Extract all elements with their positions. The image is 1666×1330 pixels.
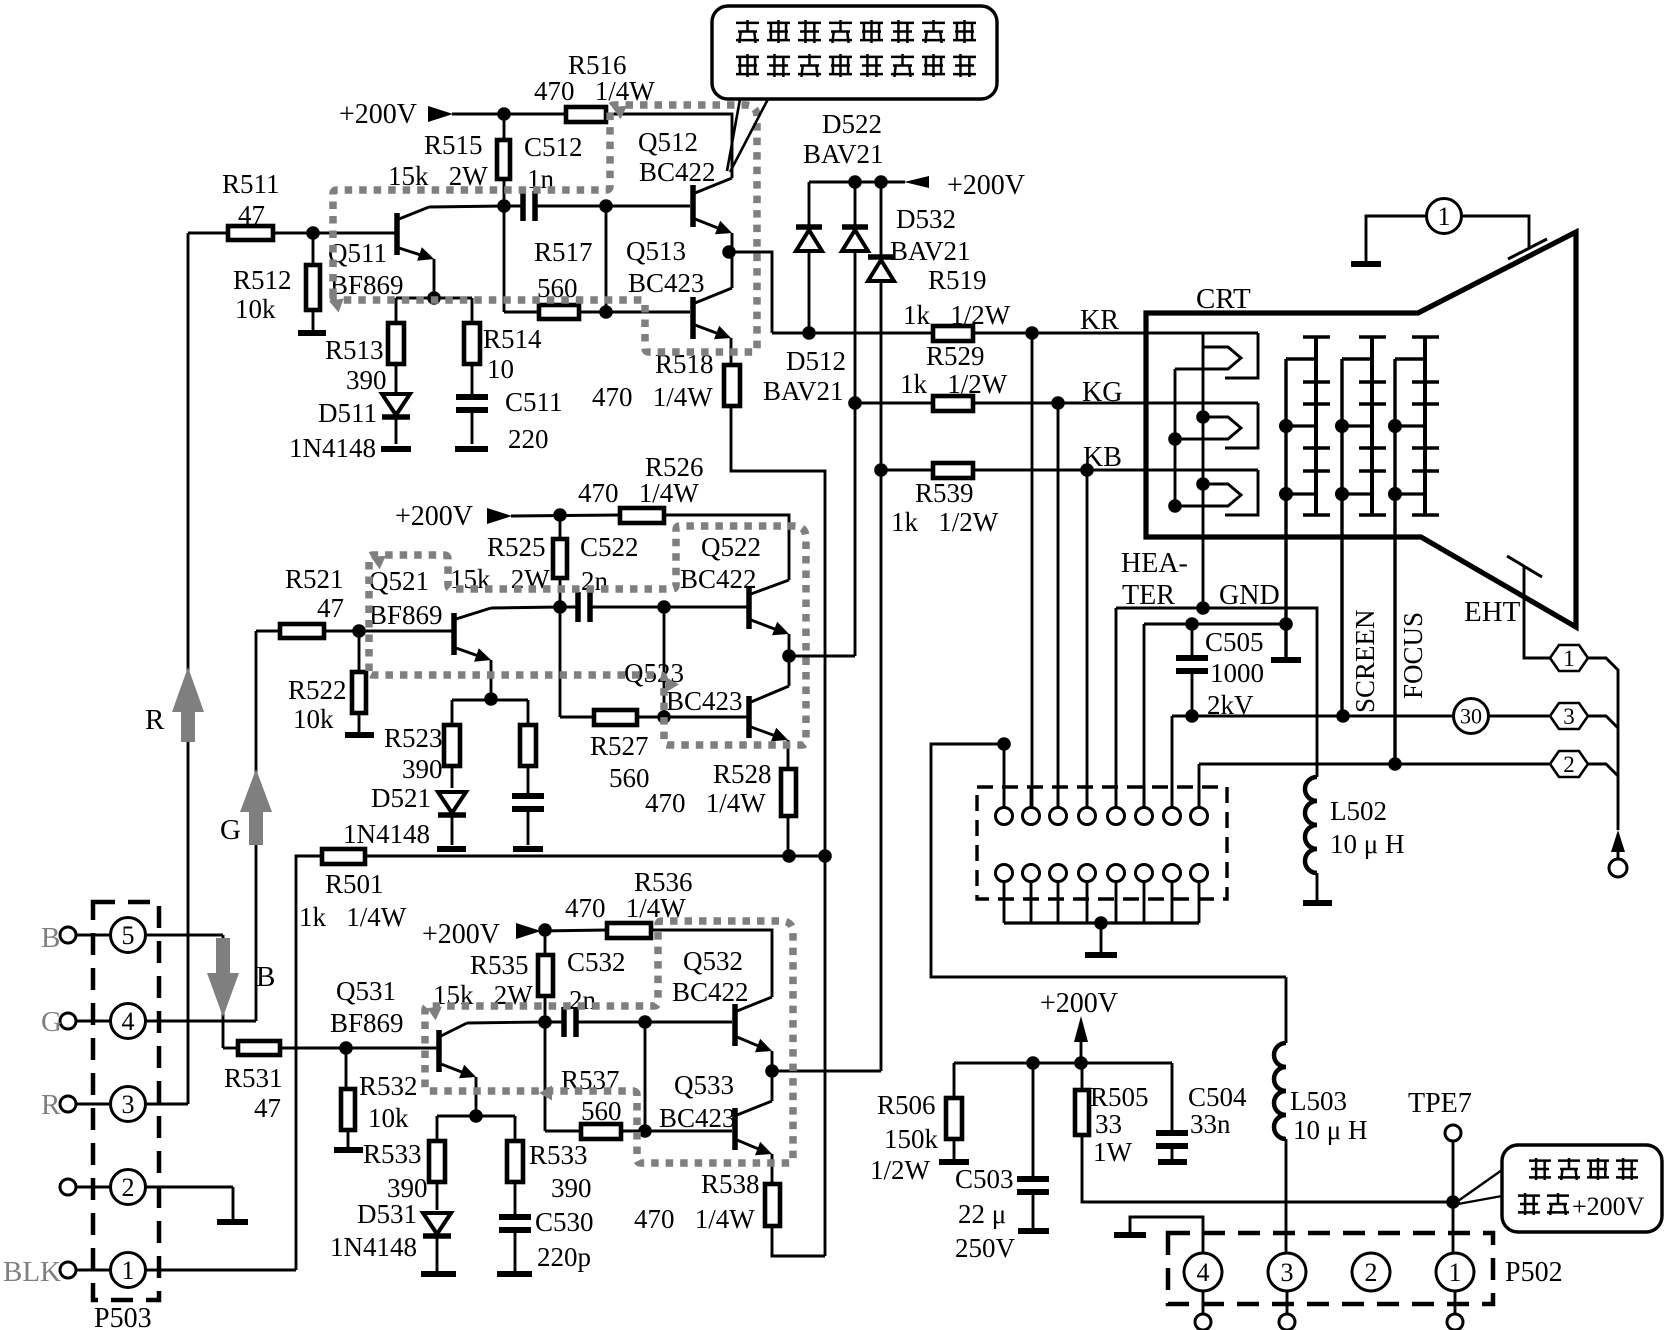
ground C503 xyxy=(1018,1228,1049,1234)
P503 pin 4 xyxy=(60,1013,76,1029)
socket pin 3 top xyxy=(1050,808,1067,825)
svg-text:EHT: EHT xyxy=(1464,596,1521,628)
svg-text:FOCUS: FOCUS xyxy=(1398,612,1428,699)
svg-text:HEA-: HEA- xyxy=(1121,548,1188,579)
svg-text:+200V: +200V xyxy=(1040,988,1118,1019)
svg-text:C503: C503 xyxy=(955,1164,1014,1194)
ground R522 xyxy=(345,732,374,738)
EHT tick xyxy=(1507,556,1542,577)
wire node to R527 left xyxy=(559,607,562,717)
wire Q521 collector to C522 xyxy=(491,607,560,608)
wire KG to G-output xyxy=(854,403,857,656)
svg-text:150k: 150k xyxy=(884,1124,939,1154)
EHT cable terminal xyxy=(1611,830,1625,852)
svg-text:1: 1 xyxy=(1449,1258,1462,1287)
ground socket xyxy=(1100,923,1103,953)
diode D531 xyxy=(423,1213,451,1234)
svg-text:Q512: Q512 xyxy=(638,127,698,157)
socket pin 3 bottom xyxy=(1050,865,1067,882)
socket pin 2 bottom xyxy=(1023,865,1040,882)
wire node to R517 left xyxy=(503,206,506,312)
wire Q532 emitter to Q533 collector xyxy=(771,1051,774,1101)
node B output xyxy=(765,1064,779,1078)
svg-text:KR: KR xyxy=(1080,305,1119,336)
svg-text:BF869: BF869 xyxy=(330,270,404,300)
svg-text:R: R xyxy=(145,704,165,736)
resistor R505 xyxy=(1081,1063,1084,1090)
resistor R501 xyxy=(296,856,322,1270)
svg-text:BC422: BC422 xyxy=(672,977,749,1007)
connector CRT socket xyxy=(977,787,1227,899)
svg-text:C512: C512 xyxy=(524,132,583,162)
socket pin 8 top xyxy=(1191,808,1208,825)
svg-text:BC423: BC423 xyxy=(659,1103,736,1133)
svg-text:Q521: Q521 xyxy=(369,566,429,596)
P503 pin 3 xyxy=(60,1096,76,1112)
svg-text:220: 220 xyxy=(508,424,549,454)
wire KB line xyxy=(874,463,888,477)
wire Q521 emitter xyxy=(490,660,493,699)
arrow B (gray) xyxy=(216,938,230,973)
svg-text:D521: D521 xyxy=(371,783,431,813)
svg-text:G: G xyxy=(220,814,241,846)
terminal tag 2 xyxy=(1550,751,1588,777)
resistor R527 xyxy=(560,716,594,719)
CRT cathode KR xyxy=(1146,332,1258,335)
svg-text:10: 10 xyxy=(487,354,514,384)
wire C532 to Q532 base xyxy=(645,1021,732,1024)
svg-text:R501: R501 xyxy=(325,869,384,899)
resistor R528 xyxy=(787,740,790,769)
node Q521 base xyxy=(352,624,366,638)
CRT heater wire A xyxy=(1202,333,1205,608)
capacitor C503 xyxy=(1032,1063,1035,1176)
svg-text:+200V: +200V xyxy=(422,919,500,950)
svg-text:R522: R522 xyxy=(288,675,347,705)
svg-text:R532: R532 xyxy=(359,1071,418,1101)
wire R output to KR xyxy=(729,252,772,333)
svg-text:560: 560 xyxy=(609,763,650,793)
wire Q522 emitter to Q523 collector xyxy=(788,634,791,686)
svg-text:D511: D511 xyxy=(318,398,377,428)
socket pin 1 bottom xyxy=(996,865,1013,882)
diode D521 xyxy=(438,792,466,813)
wire KG line xyxy=(848,396,862,410)
svg-text:R515: R515 xyxy=(424,130,483,160)
ground R512 xyxy=(298,330,326,336)
svg-text:390: 390 xyxy=(402,754,443,784)
socket pin 4 bottom xyxy=(1079,865,1096,882)
svg-text:SCREEN: SCREEN xyxy=(1350,609,1380,713)
wire node to R537 left xyxy=(544,1022,547,1131)
P503 pin 5 xyxy=(60,927,76,943)
CRT envelope xyxy=(1146,232,1576,627)
resistor R513 xyxy=(395,298,398,323)
resistor R516 xyxy=(566,107,606,122)
svg-text:GND: GND xyxy=(1219,580,1280,611)
svg-text:R525: R525 xyxy=(487,532,546,562)
svg-text:TER: TER xyxy=(1122,580,1175,611)
resistor R524 xyxy=(527,700,530,725)
wire KB to socket pin4 xyxy=(1086,470,1089,808)
svg-text:R519: R519 xyxy=(928,265,987,295)
svg-text:R533: R533 xyxy=(529,1140,588,1170)
svg-text:47: 47 xyxy=(317,593,344,623)
ground D511 xyxy=(381,446,411,452)
svg-text:B: B xyxy=(41,922,60,954)
wire R536 to Q532 collector xyxy=(651,930,772,997)
wire KR line xyxy=(772,332,933,335)
socket pin 6 top xyxy=(1136,808,1153,825)
svg-text:R514: R514 xyxy=(483,324,542,354)
wire EHT xyxy=(1524,567,1550,658)
dotted-box arrow tips B xyxy=(427,1007,442,1021)
svg-text:D531: D531 xyxy=(357,1199,417,1229)
svg-text:30: 30 xyxy=(1460,703,1482,728)
svg-text:C505: C505 xyxy=(1205,627,1264,657)
svg-text:BC422: BC422 xyxy=(639,157,716,187)
resistor R526 xyxy=(620,508,664,523)
wire KR to socket pin2 xyxy=(1031,333,1034,808)
svg-text:R531: R531 xyxy=(224,1063,283,1093)
wire Q531 emitter xyxy=(475,1077,478,1116)
svg-text:R512: R512 xyxy=(233,265,292,295)
CRT electrode G1 xyxy=(1284,359,1287,658)
wire Q511 emitter xyxy=(433,259,436,298)
svg-text:3: 3 xyxy=(1281,1258,1294,1287)
resistor R532 xyxy=(345,1048,348,1089)
transistor Q532 xyxy=(732,1004,738,1046)
wire R538 return xyxy=(772,1226,825,1256)
resistor R535 xyxy=(544,930,547,955)
wire Q511 collector to C512 xyxy=(429,206,504,207)
svg-text:470 1/4W: 470 1/4W xyxy=(578,478,699,508)
wire KR to CRT xyxy=(973,332,1146,335)
svg-text:5: 5 xyxy=(122,921,135,950)
wire G output xyxy=(789,655,855,658)
socket pin 5 top xyxy=(1108,808,1125,825)
svg-text:22 μ: 22 μ xyxy=(958,1199,1006,1229)
svg-text:560: 560 xyxy=(581,1096,622,1126)
wire KG to socket pin3 xyxy=(1057,403,1060,808)
ground G1 electrode xyxy=(1271,657,1301,663)
callout balloon: output stage supply +200V xyxy=(1502,1145,1662,1232)
capacitor C522 xyxy=(560,606,578,609)
svg-text:2: 2 xyxy=(1563,752,1575,777)
svg-text:2n: 2n xyxy=(569,985,597,1015)
svg-text:D512: D512 xyxy=(786,346,846,376)
svg-text:C504: C504 xyxy=(1188,1082,1247,1112)
svg-text:Q531: Q531 xyxy=(336,976,396,1006)
svg-text:390: 390 xyxy=(346,365,387,395)
svg-text:C522: C522 xyxy=(580,532,639,562)
svg-text:470 1/4W: 470 1/4W xyxy=(565,893,686,923)
svg-text:KB: KB xyxy=(1083,442,1122,473)
resistor R534 xyxy=(514,1116,517,1141)
svg-text:L503: L503 xyxy=(1290,1086,1347,1116)
svg-text:BF869: BF869 xyxy=(330,1008,404,1038)
svg-text:R506: R506 xyxy=(877,1090,936,1120)
svg-text:BC423: BC423 xyxy=(628,268,705,298)
svg-text:10k: 10k xyxy=(368,1103,409,1133)
socket pin 8 bottom xyxy=(1191,865,1208,882)
svg-text:1W: 1W xyxy=(1093,1137,1133,1167)
svg-text:47: 47 xyxy=(254,1093,281,1123)
wire common return bus xyxy=(365,855,825,858)
svg-text:R521: R521 xyxy=(285,564,344,594)
svg-text:1k 1/2W: 1k 1/2W xyxy=(903,300,1011,330)
svg-text:1k 1/4W: 1k 1/4W xyxy=(299,902,407,932)
node R517/Q513 base xyxy=(599,305,613,319)
wire FOCUS line xyxy=(1199,763,1550,766)
svg-text:33n: 33n xyxy=(1190,1109,1231,1139)
svg-text:1k 1/2W: 1k 1/2W xyxy=(891,507,999,537)
resistor R529 xyxy=(855,402,933,405)
P503 pin 2 xyxy=(60,1179,76,1195)
highlight box B amplifier (dotted) xyxy=(425,921,793,1163)
diode D522 xyxy=(854,182,857,229)
resistor R506 xyxy=(953,1063,956,1098)
wire node to R537 right xyxy=(644,1022,647,1131)
P502 pin 1 xyxy=(1436,1253,1474,1291)
svg-text:R505: R505 xyxy=(1090,1082,1149,1112)
svg-text:C530: C530 xyxy=(535,1207,594,1237)
svg-text:R513: R513 xyxy=(325,335,384,365)
socket pin 6 bottom xyxy=(1136,865,1153,882)
resistor R525 xyxy=(559,515,562,539)
wire tags to EHT terminal xyxy=(1588,658,1618,830)
inductor L503 xyxy=(1285,977,1288,1043)
ground P502 pin4 xyxy=(1130,1217,1203,1253)
ground C511 xyxy=(455,446,488,452)
highlight box G amplifier (dotted) xyxy=(369,526,806,745)
resistor R536 xyxy=(607,923,651,938)
connector P502 xyxy=(1168,1233,1493,1304)
resistor R519 xyxy=(933,326,973,341)
svg-text:BC422: BC422 xyxy=(680,564,757,594)
terminal tag 3 xyxy=(1550,703,1588,729)
wire socket pin1 feed xyxy=(931,744,1286,977)
wire GND to socket pin6 xyxy=(1143,624,1146,808)
svg-text:2: 2 xyxy=(1365,1258,1378,1287)
svg-text:1N4148: 1N4148 xyxy=(330,1232,417,1262)
wire B path xyxy=(222,935,225,1048)
anode button tick xyxy=(1508,239,1547,259)
arrow G (gray) xyxy=(240,769,272,812)
svg-text:1/2W: 1/2W xyxy=(870,1155,931,1185)
wire KB to CRT xyxy=(973,469,1146,472)
node Q511 base xyxy=(306,226,320,240)
socket pin 7 bottom xyxy=(1164,865,1181,882)
transistor Q523 xyxy=(746,696,752,738)
transistor Q521 xyxy=(451,613,457,655)
wire Q521 emitter rail xyxy=(452,699,528,702)
svg-text:2: 2 xyxy=(122,1173,135,1202)
svg-text:BC423: BC423 xyxy=(666,686,743,716)
wire C512 to Q512 base xyxy=(606,205,690,208)
inductor L502 xyxy=(1203,608,1317,777)
capacitor C511 xyxy=(456,394,488,400)
CRT cathode KG xyxy=(1146,402,1258,405)
node G output xyxy=(782,649,796,663)
node C522/Q522 base xyxy=(657,600,671,614)
terminal circled 1 (CRT aquadag) xyxy=(1427,199,1462,234)
resistor R521 xyxy=(256,630,280,633)
wire KB to B-output xyxy=(880,470,883,1071)
dotted-box arrow tips xyxy=(612,106,627,120)
node Q531 base xyxy=(339,1041,353,1055)
svg-text:R511: R511 xyxy=(222,169,280,199)
diode D532 xyxy=(880,182,883,259)
resistor R523 xyxy=(451,700,454,725)
wire B output xyxy=(772,1070,881,1073)
svg-text:R533: R533 xyxy=(363,1139,422,1169)
svg-text:L502: L502 xyxy=(1330,796,1387,826)
wire KG to CRT xyxy=(973,402,1146,405)
ground P503 pin2 xyxy=(232,1187,235,1220)
resistor R514 xyxy=(471,298,474,323)
svg-text:+200V: +200V xyxy=(395,501,473,532)
svg-text:R529: R529 xyxy=(926,341,985,371)
arrow R (gray) xyxy=(172,667,204,712)
svg-text:R539: R539 xyxy=(915,478,974,508)
wire Q531 collector to C532 xyxy=(467,1022,545,1023)
node R537/Q533 base xyxy=(638,1124,652,1138)
resistor R511 xyxy=(188,232,228,235)
CRT cathode KB xyxy=(1146,469,1258,472)
P503 pin 1 xyxy=(60,1262,76,1278)
svg-text:470 1/4W: 470 1/4W xyxy=(645,788,766,818)
node R527/Q523 base xyxy=(657,710,671,724)
svg-text:470 1/4W: 470 1/4W xyxy=(634,1204,755,1234)
CRT electrode SCREEN grid xyxy=(1340,359,1343,716)
node G1/GND xyxy=(1279,617,1293,631)
wire GND line xyxy=(1144,623,1286,626)
svg-text:1: 1 xyxy=(1438,202,1451,231)
ground D531 xyxy=(421,1271,456,1277)
svg-text:3: 3 xyxy=(122,1090,135,1119)
svg-text:1000: 1000 xyxy=(1210,658,1264,688)
svg-text:470 1/4W: 470 1/4W xyxy=(534,76,655,106)
wire heater to socket pin5 xyxy=(1115,608,1118,808)
node C532/Q532 base xyxy=(638,1015,652,1029)
svg-text:10k: 10k xyxy=(235,294,276,324)
svg-text:D522: D522 xyxy=(822,109,882,139)
wire R bus xyxy=(187,233,190,1104)
svg-text:CRT: CRT xyxy=(1196,283,1251,315)
svg-text:D532: D532 xyxy=(896,204,956,234)
P502 pin 4 xyxy=(1184,1253,1222,1291)
ground R506 xyxy=(939,1159,969,1165)
node R535/C532 xyxy=(538,1015,552,1029)
svg-text:4: 4 xyxy=(122,1007,135,1036)
svg-text:220p: 220p xyxy=(537,1242,591,1272)
ground C504 xyxy=(1158,1159,1187,1165)
capacitor C521 xyxy=(512,793,544,799)
ground R532 xyxy=(334,1147,363,1153)
ground D521 xyxy=(437,846,466,852)
resistor R537 xyxy=(545,1130,581,1133)
wire supply rail xyxy=(954,1062,1172,1065)
svg-text:10 μ H: 10 μ H xyxy=(1293,1115,1367,1145)
svg-text:Q511: Q511 xyxy=(328,238,387,268)
CRT heater wire B xyxy=(1174,369,1177,506)
wire Q511 emitter rail xyxy=(396,297,472,300)
socket pin 4 top xyxy=(1079,808,1096,825)
transistor Q511 xyxy=(394,213,400,255)
node C512/Q512 base xyxy=(599,199,613,213)
CRT electrode FOCUS grid xyxy=(1393,359,1396,764)
svg-text:B: B xyxy=(256,961,275,993)
diode D511 xyxy=(382,394,410,415)
wire Q512 emitter to Q513 collector xyxy=(731,233,734,288)
wire R505 to supply line xyxy=(1082,1135,1453,1202)
wire R516 to Q512 collector xyxy=(606,114,732,178)
P502 pin 2 xyxy=(1352,1253,1390,1291)
capacitor C504 xyxy=(1171,1063,1174,1130)
svg-text:560: 560 xyxy=(537,273,578,303)
wire focus-return to socket pin8 xyxy=(1198,764,1201,808)
svg-text:1: 1 xyxy=(122,1256,135,1285)
svg-text:BLK: BLK xyxy=(3,1256,61,1288)
svg-text:R: R xyxy=(41,1089,61,1121)
node TPE7 supply xyxy=(1446,1195,1460,1209)
resistor R533 xyxy=(436,1116,439,1141)
node +200V D532 xyxy=(874,175,888,189)
resistor R522 xyxy=(358,631,361,672)
svg-text:4: 4 xyxy=(1197,1258,1210,1287)
node R525/C522 xyxy=(553,600,567,614)
svg-text:BAV21: BAV21 xyxy=(763,376,844,406)
svg-text:R535: R535 xyxy=(470,950,529,980)
capacitor C530 xyxy=(499,1214,531,1220)
node R515/C512 xyxy=(497,199,511,213)
svg-text:3: 3 xyxy=(1563,704,1575,729)
resistor R517 xyxy=(504,311,539,314)
wire node to R517 right xyxy=(605,206,608,312)
socket pin 2 top xyxy=(1023,808,1040,825)
capacitor C512 xyxy=(504,205,523,208)
wire Q531 emitter rail xyxy=(437,1115,515,1118)
svg-text:+200V: +200V xyxy=(339,99,417,130)
wire G bus xyxy=(255,631,258,1021)
svg-text:BF869: BF869 xyxy=(369,600,443,630)
svg-text:+200V: +200V xyxy=(947,170,1025,201)
socket bottom bus xyxy=(1004,921,1199,924)
resistor R531 xyxy=(223,1047,238,1050)
transistor Q533 xyxy=(732,1108,738,1150)
svg-text:G: G xyxy=(41,1006,62,1038)
resistor R515 xyxy=(503,114,506,140)
svg-text:470 1/4W: 470 1/4W xyxy=(592,382,713,412)
svg-text:250V: 250V xyxy=(955,1233,1016,1263)
node R output xyxy=(722,245,736,259)
svg-text:1: 1 xyxy=(1563,646,1575,671)
svg-text:Q522: Q522 xyxy=(701,532,761,562)
svg-text:1N4148: 1N4148 xyxy=(289,433,376,463)
svg-text:BAV21: BAV21 xyxy=(803,139,884,169)
wire screen-return to socket pin7 xyxy=(1171,716,1174,808)
callout balloon: three-transistor video output stage xyxy=(712,6,997,99)
svg-text:C532: C532 xyxy=(567,947,626,977)
svg-text:1N4148: 1N4148 xyxy=(343,819,430,849)
svg-text:+200V: +200V xyxy=(1572,1192,1645,1221)
svg-text:R527: R527 xyxy=(590,731,649,761)
svg-text:47: 47 xyxy=(238,200,265,230)
transistor Q512 xyxy=(690,185,696,227)
wire heater run xyxy=(1116,607,1317,610)
wire C522 to Q522 base xyxy=(664,606,747,609)
